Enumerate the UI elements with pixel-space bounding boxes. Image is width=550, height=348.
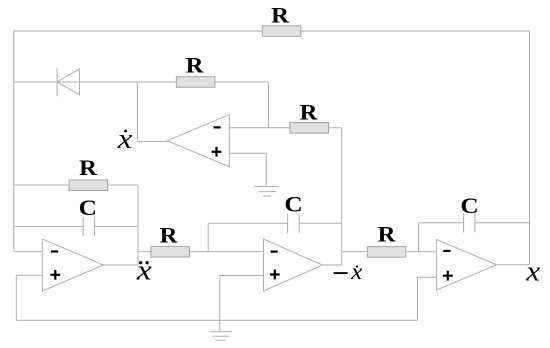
wire U2 C row right: [299, 222, 341, 224]
wire U2-output bus vertical: [341, 128, 343, 265]
wire xddot row: [138, 251, 264, 253]
op-amp U2 (minus-xdot integrator): [264, 239, 323, 291]
resistor R (U1 input): [290, 123, 329, 134]
op-amp U1 minus pin: [214, 126, 221, 128]
wire diode row: [14, 81, 269, 83]
svg-text:R: R: [160, 223, 179, 248]
svg-text:C: C: [460, 193, 478, 218]
svg-text:R: R: [79, 155, 98, 180]
op-amp U1 plus pin: [212, 147, 222, 157]
op-amp U1 (inverter, points left): [167, 115, 229, 167]
wire U4 C row left: [419, 222, 464, 224]
svg-text:C: C: [79, 195, 97, 220]
svg-text:R: R: [300, 100, 319, 125]
op-amp U3 (xddot integrator): [42, 239, 103, 291]
wire bottom ground rail: [16, 319, 417, 321]
wire U4 output: [497, 264, 530, 266]
capacitor C (U2 feedback): [288, 214, 300, 233]
wire node xdot vertical: [137, 82, 167, 141]
op-amp U4 (x integrator): [437, 240, 497, 291]
resistor R (U2 input): [151, 246, 190, 257]
svg-text:x: x: [350, 259, 363, 285]
svg-text:x: x: [525, 256, 540, 288]
svg-text:x: x: [136, 254, 152, 286]
capacitor C (U3 feedback): [83, 217, 94, 236]
wire U2 C-feedback left vertical: [207, 223, 209, 251]
svg-text:R: R: [271, 3, 290, 28]
wire U3 minus input row: [14, 251, 43, 253]
op-amp U4 plus pin: [443, 271, 453, 281]
diode D1: [57, 68, 79, 96]
node minus-x-dot label: [334, 259, 363, 285]
wire U4 C row right: [475, 222, 530, 224]
wire minus-xdot row: [342, 251, 437, 253]
wire U4 plus to ground rail: [418, 277, 437, 320]
op-amp U4 minus pin: [443, 250, 450, 252]
svg-text:C: C: [284, 192, 302, 217]
wire U4 C-feedback left vertical: [418, 223, 420, 252]
wire right rail: [529, 31, 531, 265]
op-amp U2 minus pin: [271, 251, 278, 253]
svg-text:x: x: [117, 123, 133, 155]
op-amp U3 minus pin: [51, 250, 58, 252]
wire top rail: [14, 31, 530, 251]
svg-text:R: R: [378, 222, 397, 247]
ground (bottom rail): [210, 332, 232, 340]
wire left feedback vertical: [137, 185, 139, 265]
wire minus-bus vertical: [268, 82, 270, 128]
wire U1 plus to ground: [229, 153, 266, 186]
wire U2 C row left: [208, 222, 287, 224]
node x-ddot label: [136, 254, 152, 286]
node x-dot label: [117, 123, 133, 155]
op-amp U3 plus pin: [50, 270, 60, 280]
resistor R (U4 input): [367, 247, 406, 258]
wire U3 output: [103, 264, 138, 266]
wire U2 output: [322, 264, 341, 266]
capacitor C (U4 feedback): [464, 213, 475, 232]
wire left feedback C row left: [14, 225, 83, 227]
resistor R (diode row): [176, 77, 215, 88]
wire U1 minus input row: [229, 127, 341, 129]
wire left feedback R row: [14, 184, 138, 186]
wire U3 plus feedback: [16, 275, 42, 320]
wire left feedback C row right: [95, 225, 139, 227]
ground (U1 plus): [254, 186, 279, 196]
resistor R (top feedback): [262, 26, 301, 37]
resistor R (U3 feedback): [69, 180, 108, 191]
op-amp U2 plus pin: [270, 270, 280, 280]
svg-text:R: R: [186, 52, 205, 77]
wire U2 plus to ground rail: [220, 276, 264, 332]
